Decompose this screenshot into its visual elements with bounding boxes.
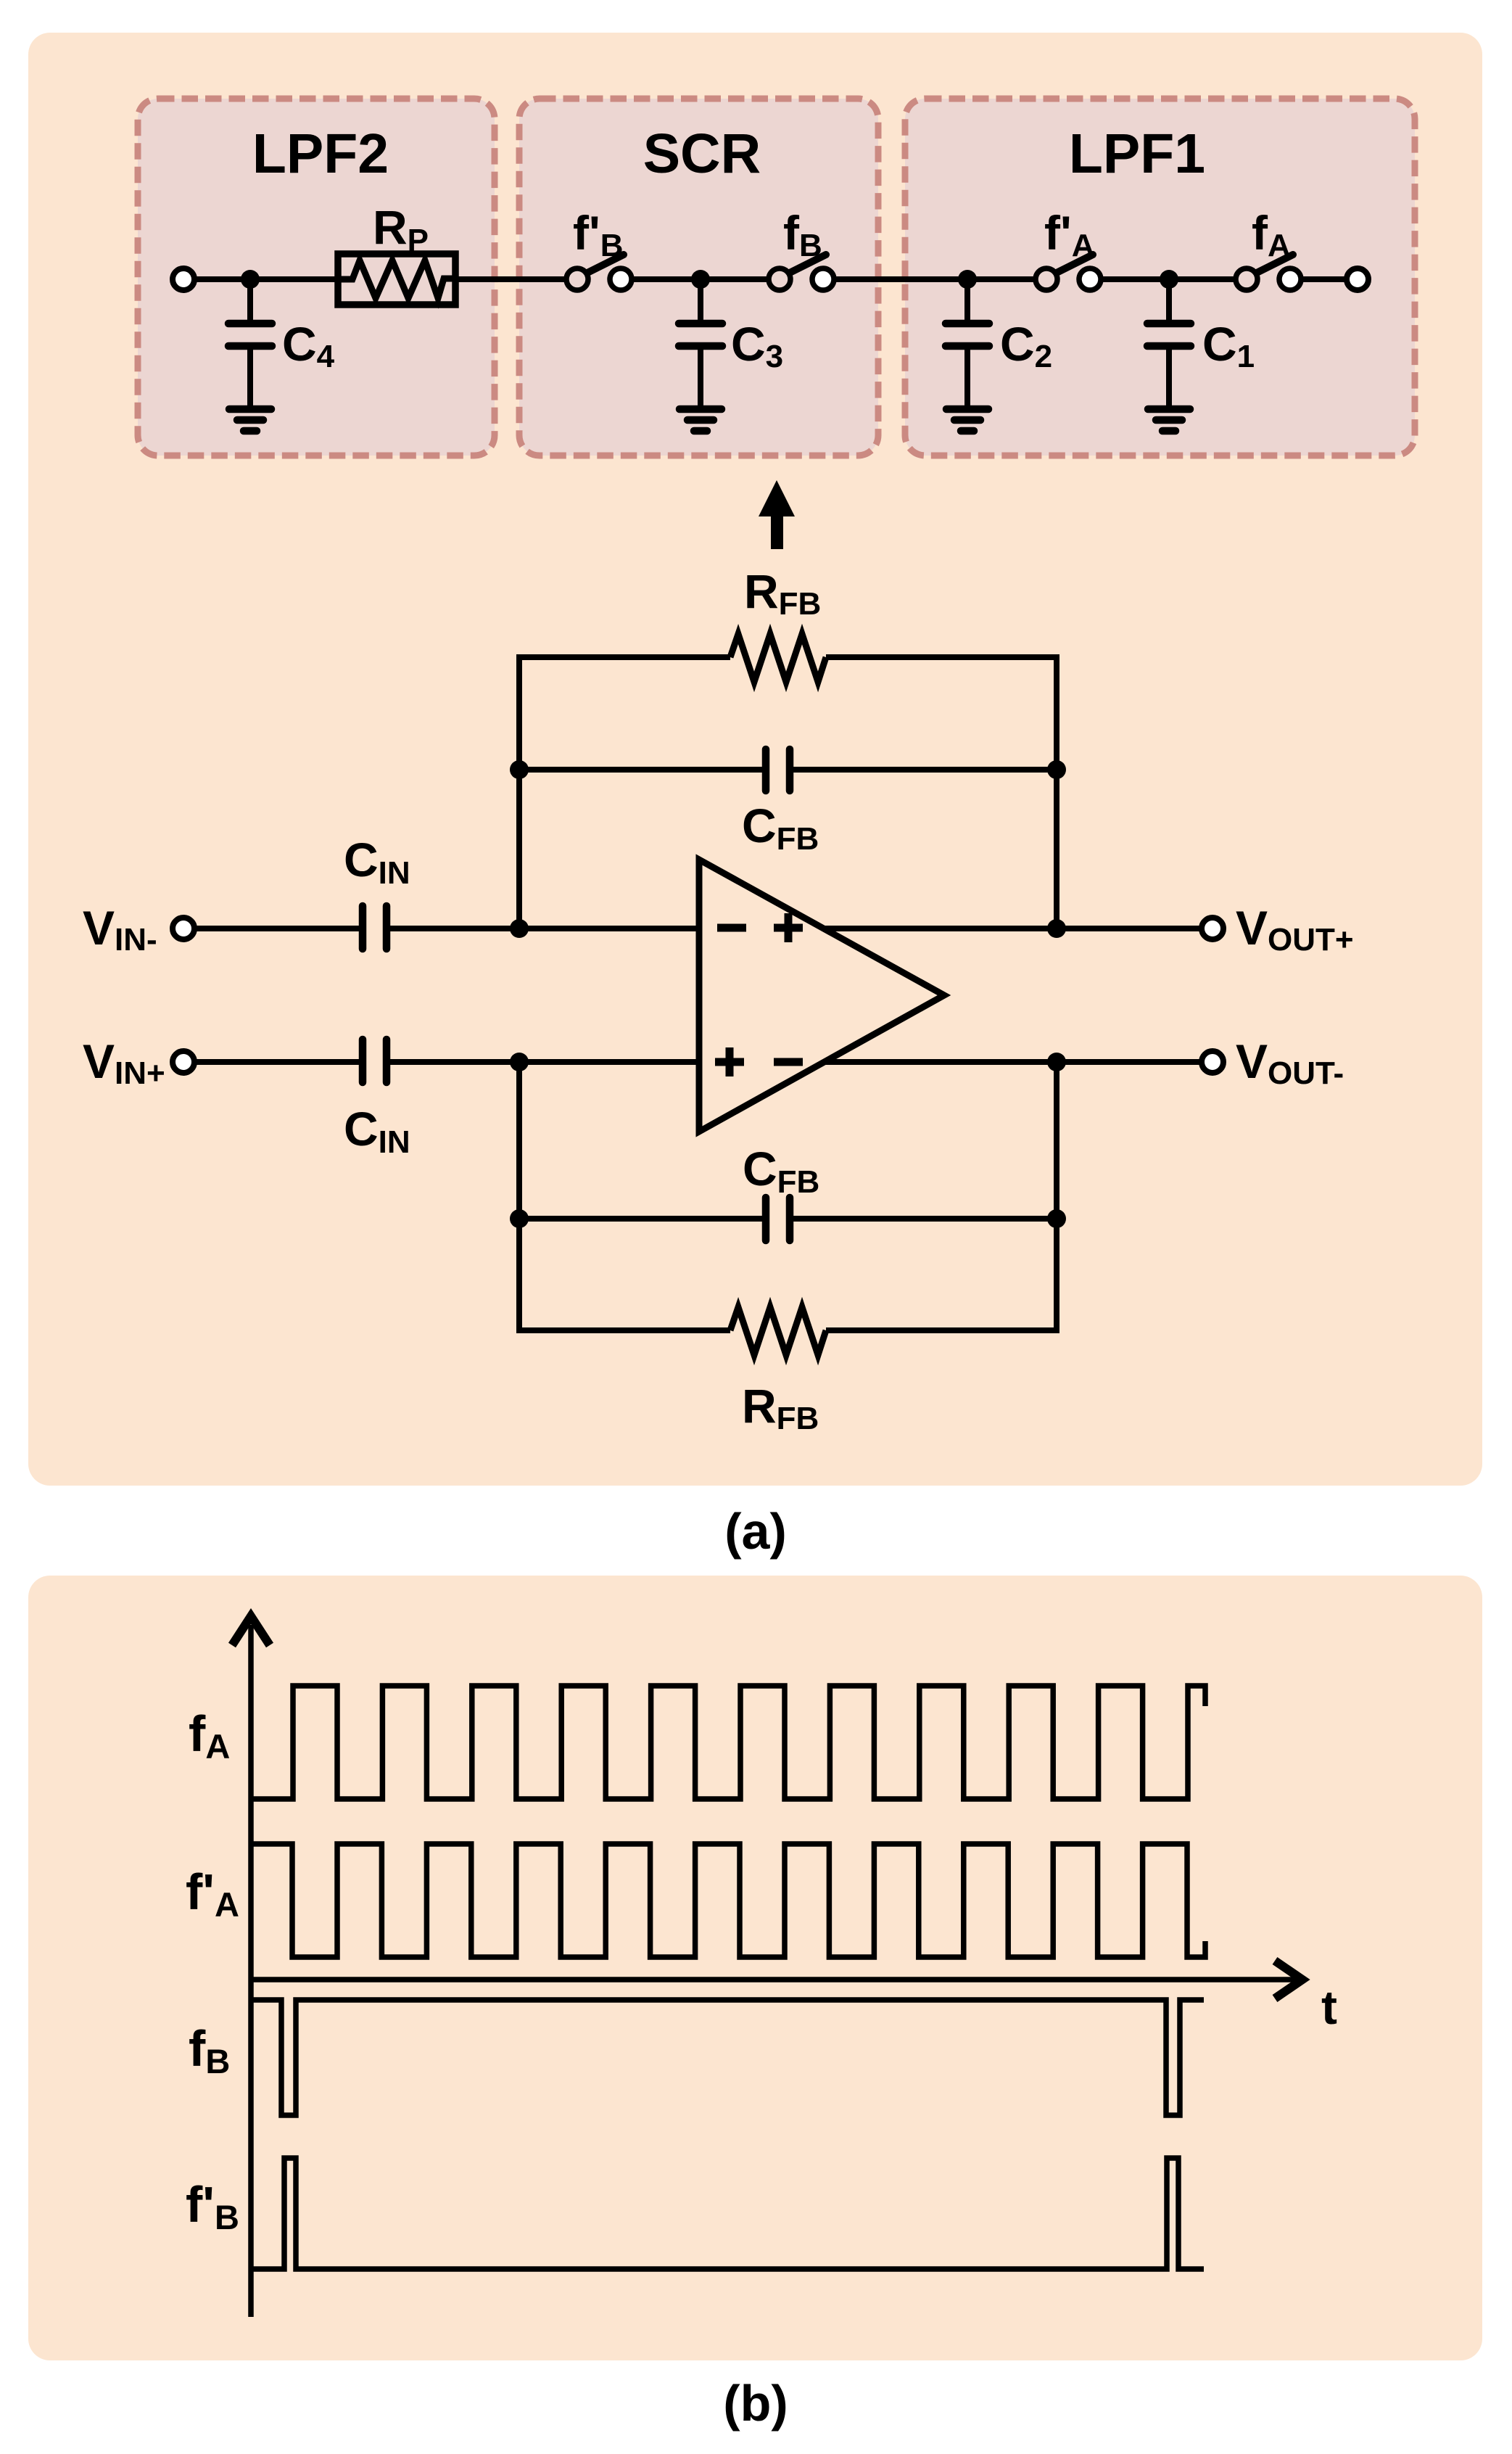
minus sign top bbox=[717, 924, 746, 932]
panel a background bbox=[28, 33, 1482, 1486]
plus sign top bbox=[774, 913, 803, 942]
node VOUT+ feedback bbox=[1047, 919, 1066, 938]
node VIN- feedback bbox=[510, 919, 529, 938]
node at C4 bbox=[241, 270, 260, 289]
switch fA bbox=[1236, 255, 1301, 290]
ground for C4 bbox=[229, 409, 271, 431]
output terminal VOUT+ bbox=[1202, 918, 1223, 939]
node CFB top right bbox=[1047, 760, 1066, 779]
resistor RP bbox=[338, 254, 455, 305]
switch f'A bbox=[1036, 255, 1101, 290]
capacitor C2 bbox=[946, 279, 989, 409]
waveform fA bbox=[252, 1686, 1205, 1799]
svg-text:(a): (a) bbox=[724, 1503, 787, 1560]
vertical axis panel b bbox=[232, 1616, 270, 2317]
wire: left vertical VIN+ node to CFB bottom bbox=[516, 1062, 522, 1219]
LPF1 block box bbox=[905, 99, 1415, 456]
wire: fA to output terminal bbox=[1295, 276, 1349, 282]
node CFB bottom left bbox=[510, 1209, 529, 1228]
svg-text:t: t bbox=[1321, 1980, 1337, 2034]
svg-text:SCR: SCR bbox=[643, 123, 761, 185]
resistor RFB bottom bbox=[730, 1307, 826, 1355]
waveform f'B bbox=[252, 2158, 1204, 2269]
ground for C1 bbox=[1148, 409, 1190, 431]
input terminal (LPF2 left) bbox=[173, 268, 194, 290]
wire VIN- to opamp with CIN gap bbox=[194, 926, 699, 931]
wire opamp to VOUT+ bbox=[823, 926, 1202, 931]
wire: f'A to fA bbox=[1094, 276, 1242, 282]
arrow up from RFB to filter row bbox=[759, 480, 795, 549]
wire: top feedback right branch bbox=[826, 657, 1057, 770]
wire: input terminal to resistor RP bbox=[190, 276, 339, 282]
feedback wire CFB bottom bbox=[519, 1198, 1057, 1240]
wire: right vertical CFB top to VOUT+ node bbox=[1054, 770, 1059, 929]
ground for C3 bbox=[679, 409, 722, 431]
waveform fB bbox=[252, 2000, 1204, 2115]
feedback wire CFB top bbox=[519, 749, 1057, 791]
switch f'B bbox=[566, 255, 632, 290]
node at C2 bbox=[958, 270, 977, 289]
input terminal VIN+ bbox=[173, 1051, 194, 1073]
capacitor C1 bbox=[1147, 279, 1191, 409]
input terminal VIN- bbox=[173, 918, 194, 939]
wire: bottom feedback right branch bbox=[826, 1219, 1057, 1330]
wire: RP to switch f'B bbox=[454, 276, 573, 282]
wire: top feedback left branch bbox=[519, 657, 730, 770]
node at C3 bbox=[691, 270, 710, 289]
node CFB bottom right bbox=[1047, 1209, 1066, 1228]
op-amp U1 bbox=[699, 860, 944, 1132]
t axis bbox=[251, 1961, 1302, 1998]
LPF2 block box bbox=[138, 99, 495, 456]
wire: fB to f'A crossing into LPF1 bbox=[827, 276, 1042, 282]
wire opamp to VOUT- bbox=[825, 1059, 1202, 1065]
resistor RFB top bbox=[730, 634, 826, 682]
capacitor CIN top bbox=[363, 906, 387, 949]
switch fB bbox=[769, 255, 834, 290]
capacitor C3 bbox=[679, 279, 722, 409]
waveform f'A bbox=[252, 1844, 1205, 1957]
minus sign bottom bbox=[774, 1058, 803, 1066]
node at C1 bbox=[1160, 270, 1178, 289]
svg-text:LPF1: LPF1 bbox=[1069, 123, 1205, 185]
svg-text:(b): (b) bbox=[723, 2375, 788, 2432]
wire: f'B to fB with node bbox=[625, 276, 776, 282]
node CFB top left bbox=[510, 760, 529, 779]
wire: right vertical VOUT- node to CFB bottom bbox=[1054, 1062, 1059, 1219]
plus sign bottom bbox=[715, 1047, 744, 1076]
capacitor C4 bbox=[228, 279, 272, 409]
wire: left vertical CFB top to VIN- node bbox=[516, 770, 522, 929]
svg-text:LPF2: LPF2 bbox=[252, 123, 389, 185]
output terminal (LPF1 right) bbox=[1347, 268, 1368, 290]
ground for C2 bbox=[946, 409, 988, 431]
output terminal VOUT- bbox=[1202, 1051, 1223, 1073]
wire VIN+ to opamp with CIN gap bbox=[194, 1059, 699, 1065]
SCR block box bbox=[519, 99, 878, 456]
panel b background bbox=[28, 1576, 1482, 2360]
node VIN+ feedback bbox=[510, 1053, 529, 1071]
node VOUT- feedback bbox=[1047, 1053, 1066, 1071]
wire: bottom feedback left branch bbox=[519, 1219, 730, 1330]
capacitor CIN bottom bbox=[363, 1039, 387, 1082]
